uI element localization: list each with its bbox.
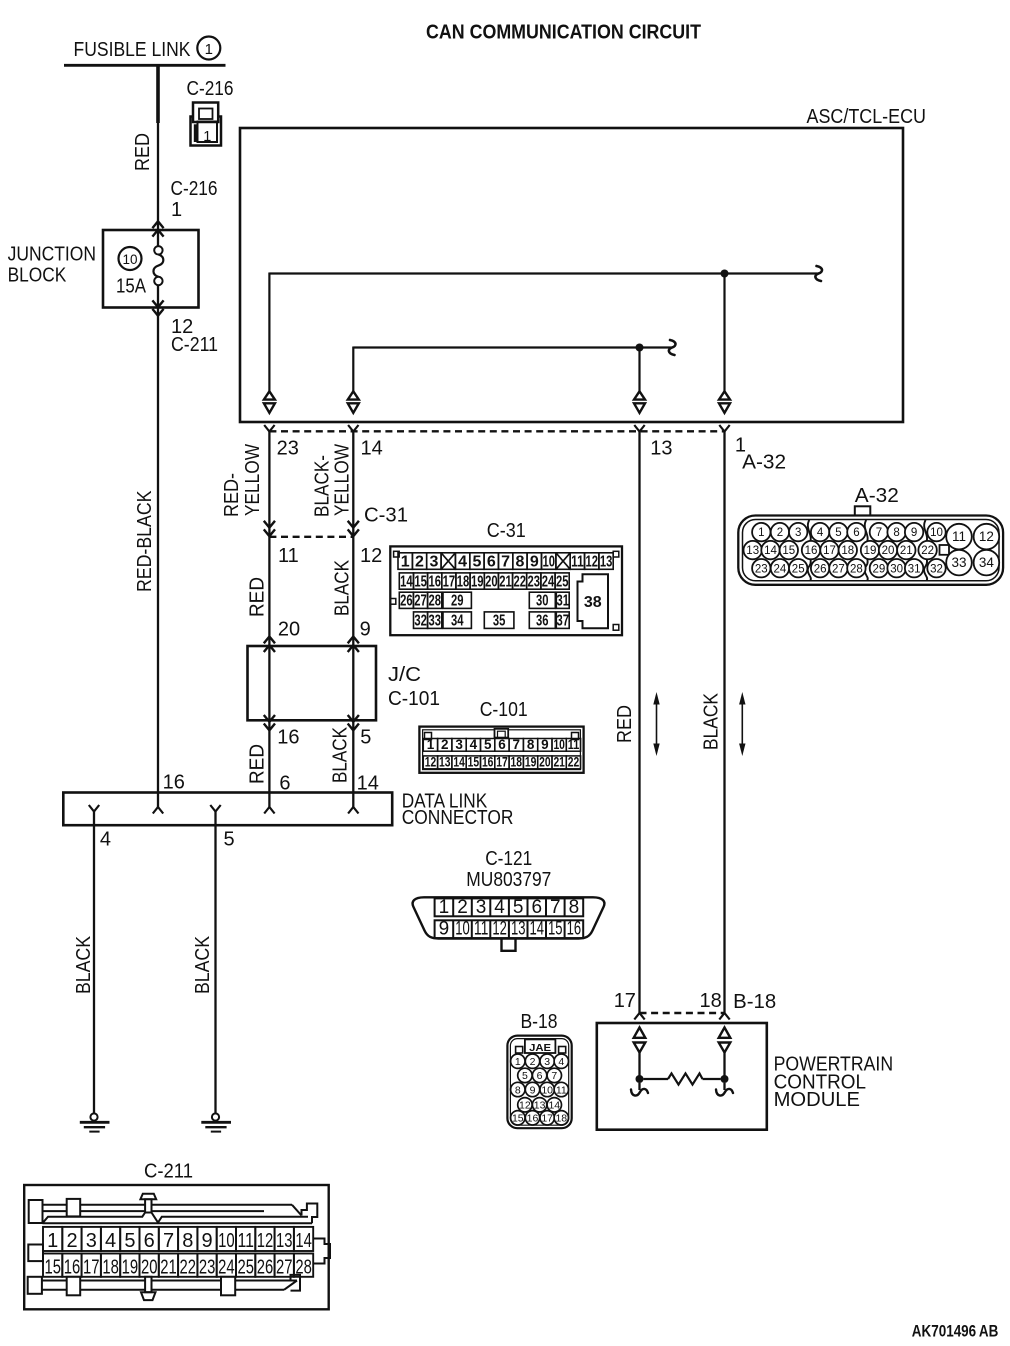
svg-text:14: 14 xyxy=(530,919,545,940)
svg-text:1: 1 xyxy=(758,527,764,539)
title CAN COMMUNICATION CIRCUIT xyxy=(426,22,701,44)
svg-text:34: 34 xyxy=(451,612,464,629)
svg-text:18: 18 xyxy=(102,1257,119,1279)
svg-text:5: 5 xyxy=(360,727,371,749)
svg-text:28: 28 xyxy=(428,593,441,610)
svg-text:3: 3 xyxy=(429,553,438,570)
wire PCM right xyxy=(723,1053,725,1080)
svg-text:24: 24 xyxy=(542,573,555,590)
svg-text:13: 13 xyxy=(511,919,526,940)
svg-text:MU803797: MU803797 xyxy=(466,869,551,891)
label A-32 icon xyxy=(855,485,899,507)
svg-text:AK701496 AB: AK701496 AB xyxy=(912,1322,999,1341)
wire ECU bus upper xyxy=(269,266,822,391)
resistor terminating xyxy=(644,1073,721,1084)
svg-text:21: 21 xyxy=(900,545,913,557)
svg-text:7: 7 xyxy=(876,527,882,539)
svg-text:4: 4 xyxy=(105,1230,116,1252)
label POWERTRAIN CONTROL MODULE xyxy=(774,1054,894,1112)
label BLACK gnd left xyxy=(73,935,95,994)
arrow bidirectional left xyxy=(653,692,659,756)
svg-text:6: 6 xyxy=(498,737,506,752)
svg-text:9: 9 xyxy=(202,1230,213,1252)
svg-text:3: 3 xyxy=(86,1230,97,1252)
svg-text:20: 20 xyxy=(278,618,300,640)
svg-text:BLACK: BLACK xyxy=(192,935,214,994)
connector C-216 icon xyxy=(191,103,222,146)
connector chevrons JB bottom xyxy=(152,300,163,315)
label pin 9 xyxy=(360,618,371,640)
label RED-YELLOW xyxy=(221,444,264,517)
svg-text:18: 18 xyxy=(555,1113,567,1125)
svg-text:6: 6 xyxy=(853,527,859,539)
label pin 6 xyxy=(279,773,290,795)
label pin 16 dlc xyxy=(163,772,185,794)
svg-text:15: 15 xyxy=(414,573,427,590)
svg-text:RED: RED xyxy=(247,744,269,784)
wire through J/C right xyxy=(352,646,354,720)
wire through J/C left xyxy=(268,646,270,720)
svg-text:7: 7 xyxy=(501,553,510,570)
svg-text:17: 17 xyxy=(496,754,508,769)
svg-text:BLACK: BLACK xyxy=(73,935,95,994)
wire stub left xyxy=(631,1083,648,1096)
svg-text:13: 13 xyxy=(600,553,613,570)
svg-text:19: 19 xyxy=(864,545,877,557)
wire BLACK mid xyxy=(352,537,354,646)
fork pin1 xyxy=(719,425,729,432)
junction connector J/C box xyxy=(248,646,377,720)
svg-text:BLACK: BLACK xyxy=(330,726,352,783)
PCM box xyxy=(597,1023,767,1130)
svg-text:31: 31 xyxy=(908,563,921,575)
svg-text:9: 9 xyxy=(360,618,371,640)
label BLACK mid xyxy=(332,559,354,616)
svg-text:10: 10 xyxy=(553,737,565,752)
wire BLACK ground left xyxy=(93,812,95,1114)
svg-text:BLACK: BLACK xyxy=(332,559,354,616)
connector B-18 icon xyxy=(507,1036,571,1129)
terminal symbol ECU pin1 xyxy=(719,391,730,413)
svg-text:2: 2 xyxy=(441,737,449,752)
svg-text:20: 20 xyxy=(882,545,895,557)
svg-text:8: 8 xyxy=(516,553,525,570)
svg-text:20: 20 xyxy=(141,1257,158,1279)
svg-text:23: 23 xyxy=(528,573,541,590)
connector A-32 icon xyxy=(738,506,1003,585)
svg-text:18: 18 xyxy=(511,754,523,769)
svg-text:3: 3 xyxy=(455,737,463,752)
svg-text:C-121: C-121 xyxy=(485,848,532,870)
connector line A-32 dashed xyxy=(269,430,724,432)
svg-text:1: 1 xyxy=(515,1056,521,1068)
svg-text:9: 9 xyxy=(530,553,539,570)
svg-text:29: 29 xyxy=(873,563,886,575)
chevrons C-31 in right xyxy=(348,521,359,536)
label C-31 wire xyxy=(364,505,408,527)
svg-text:6: 6 xyxy=(537,1070,543,1082)
svg-text:5: 5 xyxy=(835,527,841,539)
svg-text:33: 33 xyxy=(951,555,966,570)
svg-text:8: 8 xyxy=(515,1084,521,1096)
connector line C-31 dashed xyxy=(269,536,353,538)
svg-text:5: 5 xyxy=(484,737,492,752)
svg-text:2: 2 xyxy=(457,897,468,918)
svg-text:10: 10 xyxy=(218,1230,235,1252)
label pin 14 dlc xyxy=(357,773,379,795)
svg-text:13: 13 xyxy=(746,545,759,557)
svg-text:RED-: RED- xyxy=(221,473,243,517)
label ASC/TCL-ECU xyxy=(807,106,927,128)
label C-216 top xyxy=(187,78,234,100)
svg-text:22: 22 xyxy=(513,573,526,590)
svg-text:35: 35 xyxy=(493,612,506,629)
svg-text:2: 2 xyxy=(777,527,783,539)
svg-text:16: 16 xyxy=(567,919,582,940)
ECU box ASC/TCL-ECU xyxy=(240,128,903,422)
svg-text:19: 19 xyxy=(471,573,484,590)
svg-text:15: 15 xyxy=(44,1257,61,1279)
svg-text:18: 18 xyxy=(700,990,722,1012)
wire RED low xyxy=(264,720,274,813)
wire BLACK low xyxy=(348,720,358,813)
label RED pcm xyxy=(614,705,636,743)
terminal symbol ECU pin13 xyxy=(634,391,645,413)
fork pin23 xyxy=(264,425,274,432)
svg-text:14: 14 xyxy=(400,573,413,590)
terminal symbol PCM 17 xyxy=(634,1028,646,1053)
svg-text:BLOCK: BLOCK xyxy=(8,265,67,287)
svg-text:1: 1 xyxy=(401,553,410,570)
connector C-101 icon xyxy=(419,727,583,773)
chevrons J/C bottom right xyxy=(348,715,359,730)
svg-text:17: 17 xyxy=(83,1257,100,1279)
svg-text:33: 33 xyxy=(428,612,441,629)
document number xyxy=(912,1322,999,1341)
label pin 12 xyxy=(360,545,382,567)
svg-text:RED-BLACK: RED-BLACK xyxy=(134,490,156,592)
svg-text:25: 25 xyxy=(792,563,805,575)
svg-text:B-18: B-18 xyxy=(733,991,776,1013)
label C-216 pin xyxy=(171,178,218,221)
svg-text:16: 16 xyxy=(428,573,441,590)
svg-text:12: 12 xyxy=(257,1230,274,1252)
svg-text:C-216: C-216 xyxy=(187,78,234,100)
svg-text:10: 10 xyxy=(455,919,470,940)
chevrons J/C bottom left xyxy=(264,715,275,730)
svg-text:12: 12 xyxy=(519,1100,531,1112)
label pin 11 xyxy=(278,545,299,567)
svg-text:21: 21 xyxy=(553,754,565,769)
svg-text:38: 38 xyxy=(584,594,602,611)
svg-text:C-31: C-31 xyxy=(364,505,408,527)
svg-text:A-32: A-32 xyxy=(855,485,899,507)
svg-text:22: 22 xyxy=(568,754,580,769)
node junction lower xyxy=(636,344,644,352)
svg-text:37: 37 xyxy=(557,612,570,629)
label pin 20 xyxy=(278,618,300,640)
svg-text:32: 32 xyxy=(414,612,427,629)
svg-text:2: 2 xyxy=(530,1056,536,1068)
fork ground pin4 xyxy=(89,805,99,812)
connector C-211 icon xyxy=(24,1185,330,1309)
svg-text:11: 11 xyxy=(474,919,489,940)
svg-text:13: 13 xyxy=(534,1100,546,1112)
svg-text:12: 12 xyxy=(492,919,507,940)
label BLACK low xyxy=(330,726,352,783)
svg-text:YELLOW: YELLOW xyxy=(242,444,264,516)
svg-text:25: 25 xyxy=(556,573,569,590)
svg-text:16: 16 xyxy=(277,727,299,749)
fork pin14 xyxy=(348,425,358,432)
svg-text:23: 23 xyxy=(755,563,768,575)
label pin 23 xyxy=(277,438,299,460)
svg-text:24: 24 xyxy=(774,563,787,575)
svg-text:RED: RED xyxy=(614,705,636,743)
svg-text:31: 31 xyxy=(557,593,570,610)
svg-text:1: 1 xyxy=(47,1230,58,1252)
wire stub right xyxy=(716,1083,733,1096)
junction block box xyxy=(103,230,199,308)
svg-text:6: 6 xyxy=(144,1230,155,1252)
svg-text:B-18: B-18 xyxy=(521,1011,558,1033)
svg-text:12: 12 xyxy=(360,545,382,567)
svg-text:17: 17 xyxy=(443,573,456,590)
svg-text:A-32: A-32 xyxy=(742,452,786,474)
svg-text:18: 18 xyxy=(841,545,854,557)
svg-text:8: 8 xyxy=(893,527,899,539)
svg-text:18: 18 xyxy=(457,573,470,590)
svg-text:5: 5 xyxy=(513,897,524,918)
svg-text:7: 7 xyxy=(163,1230,174,1252)
svg-text:6: 6 xyxy=(532,897,543,918)
node junction upper xyxy=(721,270,729,278)
chevrons C-31 in left xyxy=(264,521,275,536)
svg-text:1: 1 xyxy=(427,737,435,752)
chevrons J/C top left xyxy=(264,637,275,653)
connector C-31 icon xyxy=(390,546,622,635)
label pin 16 jc xyxy=(277,727,299,749)
svg-text:C-216: C-216 xyxy=(171,178,218,200)
wire RED feed xyxy=(156,65,160,229)
svg-text:BLACK-: BLACK- xyxy=(312,455,334,517)
svg-text:3: 3 xyxy=(544,1056,550,1068)
svg-text:12: 12 xyxy=(585,553,598,570)
label pin 14 xyxy=(361,438,383,460)
svg-text:YELLOW: YELLOW xyxy=(332,444,354,516)
svg-text:9: 9 xyxy=(541,737,549,752)
svg-text:1: 1 xyxy=(205,41,213,58)
svg-text:13: 13 xyxy=(276,1230,293,1252)
svg-text:21: 21 xyxy=(160,1257,177,1279)
label BLACK-YELLOW xyxy=(312,444,354,517)
data link connector box xyxy=(63,793,392,826)
label B-18 wire xyxy=(733,991,776,1013)
svg-text:36: 36 xyxy=(536,612,549,629)
svg-text:4: 4 xyxy=(494,897,505,918)
svg-text:15: 15 xyxy=(548,919,563,940)
label J/C C-101 xyxy=(388,664,440,710)
wire PCM left xyxy=(638,1053,640,1080)
svg-text:17: 17 xyxy=(614,990,636,1012)
svg-text:5: 5 xyxy=(224,829,235,851)
chevrons J/C top right xyxy=(348,637,359,653)
svg-text:FUSIBLE LINK: FUSIBLE LINK xyxy=(74,39,192,61)
wire ECU bus lower xyxy=(353,340,675,391)
label RED low xyxy=(247,744,269,784)
svg-text:19: 19 xyxy=(122,1257,139,1279)
svg-text:13: 13 xyxy=(439,754,451,769)
svg-text:2: 2 xyxy=(66,1230,77,1252)
svg-text:23: 23 xyxy=(277,438,299,460)
svg-text:26: 26 xyxy=(814,563,827,575)
label pin 5 jc xyxy=(360,727,371,749)
svg-text:BLACK: BLACK xyxy=(701,692,723,750)
svg-text:RED: RED xyxy=(132,133,154,171)
svg-text:C-31: C-31 xyxy=(487,520,526,542)
svg-text:CONNECTOR: CONNECTOR xyxy=(402,807,514,829)
fork pin13 xyxy=(634,425,644,432)
svg-text:30: 30 xyxy=(890,563,903,575)
svg-text:3: 3 xyxy=(795,527,801,539)
svg-text:10: 10 xyxy=(930,527,943,539)
svg-text:32: 32 xyxy=(930,563,943,575)
svg-text:20: 20 xyxy=(539,754,551,769)
label pin 5 gnd xyxy=(224,829,235,851)
ground symbol right xyxy=(201,1113,231,1131)
label C-121 icon xyxy=(466,848,551,891)
fusible link label xyxy=(64,37,226,66)
svg-text:24: 24 xyxy=(218,1257,235,1279)
svg-text:1: 1 xyxy=(439,897,450,918)
svg-text:15: 15 xyxy=(468,754,480,769)
label pin 13 xyxy=(650,438,672,460)
svg-text:6: 6 xyxy=(487,553,496,570)
label B-18 icon xyxy=(521,1011,558,1033)
svg-text:7: 7 xyxy=(550,897,561,918)
fork ground pin5 xyxy=(210,805,220,812)
svg-text:JAE: JAE xyxy=(529,1042,551,1054)
svg-text:10: 10 xyxy=(542,553,555,570)
ground symbol left xyxy=(80,1113,110,1131)
svg-text:5: 5 xyxy=(472,553,481,570)
label DATA LINK CONNECTOR xyxy=(402,791,514,830)
svg-text:9: 9 xyxy=(530,1084,536,1096)
wire BLACK ground right xyxy=(214,812,216,1114)
wire RED to PCM xyxy=(634,432,644,1020)
label 12 C-211 pin xyxy=(171,316,218,356)
svg-text:29: 29 xyxy=(451,593,464,610)
svg-text:11: 11 xyxy=(278,545,299,567)
svg-text:JUNCTION: JUNCTION xyxy=(8,243,96,265)
svg-text:14: 14 xyxy=(764,545,777,557)
svg-text:MODULE: MODULE xyxy=(774,1089,860,1111)
svg-text:2: 2 xyxy=(415,553,424,570)
svg-text:19: 19 xyxy=(525,754,537,769)
node PCM left xyxy=(636,1075,644,1083)
connector line B-18 dashed xyxy=(640,1012,725,1014)
svg-text:4: 4 xyxy=(470,737,478,752)
terminal symbol PCM 18 xyxy=(719,1028,731,1053)
svg-text:C-101: C-101 xyxy=(388,688,440,710)
svg-text:5: 5 xyxy=(522,1070,528,1082)
svg-text:14: 14 xyxy=(295,1230,312,1252)
svg-text:26: 26 xyxy=(257,1257,274,1279)
svg-text:9: 9 xyxy=(911,527,917,539)
svg-text:11: 11 xyxy=(237,1230,254,1252)
label pin 1 A-32 xyxy=(735,435,786,474)
svg-text:C-211: C-211 xyxy=(144,1161,193,1183)
label pin 17 xyxy=(614,990,636,1012)
label pin 4 xyxy=(100,829,111,851)
arrow bidirectional right xyxy=(739,692,745,756)
svg-text:13: 13 xyxy=(650,438,672,460)
svg-text:12: 12 xyxy=(979,529,994,544)
svg-text:3: 3 xyxy=(476,897,487,918)
svg-text:10: 10 xyxy=(541,1084,553,1096)
terminal symbol ECU pin14 xyxy=(348,391,359,413)
svg-text:4: 4 xyxy=(817,527,824,539)
svg-text:30: 30 xyxy=(536,593,549,610)
svg-text:14: 14 xyxy=(453,754,465,769)
fuse 10 15A xyxy=(116,230,163,308)
svg-text:22: 22 xyxy=(921,545,934,557)
svg-text:16: 16 xyxy=(527,1113,539,1125)
label C-31 icon xyxy=(487,520,526,542)
svg-text:10: 10 xyxy=(122,252,137,267)
svg-text:16: 16 xyxy=(482,754,494,769)
svg-text:8: 8 xyxy=(182,1230,193,1252)
svg-text:15A: 15A xyxy=(116,276,147,298)
svg-text:7: 7 xyxy=(551,1070,557,1082)
svg-text:11: 11 xyxy=(571,553,584,570)
svg-text:23: 23 xyxy=(199,1257,216,1279)
label RED mid xyxy=(247,577,269,617)
label BLACK pcm xyxy=(701,692,723,750)
svg-text:8: 8 xyxy=(527,737,535,752)
svg-text:26: 26 xyxy=(400,593,413,610)
svg-text:14: 14 xyxy=(548,1100,560,1112)
svg-text:15: 15 xyxy=(782,545,795,557)
svg-text:14: 14 xyxy=(361,438,383,460)
label RED-BLACK vertical xyxy=(134,490,156,592)
svg-text:16: 16 xyxy=(805,545,818,557)
svg-text:17: 17 xyxy=(823,545,836,557)
svg-text:12: 12 xyxy=(425,754,437,769)
svg-text:20: 20 xyxy=(485,573,498,590)
label RED vertical xyxy=(132,133,154,171)
wire BLACK-YELLOW xyxy=(352,432,354,537)
svg-text:16: 16 xyxy=(64,1257,81,1279)
connector chevrons JB top xyxy=(152,221,163,236)
svg-text:15: 15 xyxy=(512,1113,524,1125)
label C-211 icon xyxy=(144,1161,193,1183)
wire ECU branch right-outer xyxy=(723,274,725,392)
svg-text:5: 5 xyxy=(124,1230,135,1252)
svg-text:C-101: C-101 xyxy=(480,699,528,721)
svg-text:11: 11 xyxy=(568,737,580,752)
svg-text:21: 21 xyxy=(499,573,512,590)
svg-text:J/C: J/C xyxy=(388,664,421,686)
svg-text:RED: RED xyxy=(247,577,269,617)
svg-text:4: 4 xyxy=(558,1056,564,1068)
svg-text:25: 25 xyxy=(237,1257,254,1279)
svg-text:17: 17 xyxy=(541,1113,553,1125)
svg-text:11: 11 xyxy=(952,529,966,544)
label JUNCTION BLOCK xyxy=(8,243,96,286)
label pin 18 xyxy=(700,990,722,1012)
label C-101 icon xyxy=(480,699,528,721)
